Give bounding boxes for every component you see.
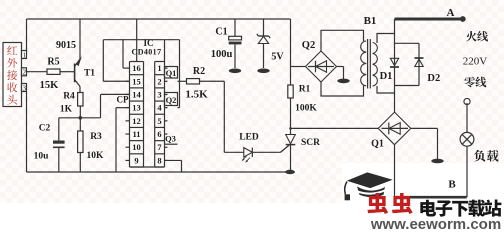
- wire pin2 to R5: [27, 71, 48, 73]
- svg-text:R3: R3: [90, 132, 102, 142]
- ground at Q2 right vertex: [337, 67, 350, 84]
- svg-text:CP: CP: [117, 95, 129, 105]
- ground blob right end of bottom rail: [285, 170, 295, 174]
- transformer B1: [361, 15, 378, 89]
- svg-text:6: 6: [157, 129, 161, 139]
- svg-text:2: 2: [157, 76, 161, 86]
- logo graduation cap: [345, 172, 393, 200]
- svg-text:3: 3: [157, 89, 161, 99]
- wire Q1 bottom to B line: [394, 145, 396, 198]
- pin 2 of IR receiver: [22, 68, 27, 77]
- svg-text:SCR: SCR: [301, 138, 320, 148]
- wire IC pin4 Q2 to pin15 reset over top: [103, 40, 179, 108]
- svg-text:11: 11: [132, 129, 140, 139]
- transistor T1 9015 PNP: [56, 19, 95, 93]
- svg-text:B: B: [448, 179, 456, 191]
- svg-text:9: 9: [134, 155, 138, 165]
- wire pin3 to ground rail: [26, 92, 28, 173]
- wire Q2 bottom to transformer primary bottom: [321, 82, 364, 96]
- svg-text:16: 16: [132, 63, 141, 73]
- svg-text:1K: 1K: [60, 105, 73, 115]
- diode D2 antiparallel: [395, 43, 441, 85]
- IC left pin numbers 16-9: [126, 63, 142, 165]
- label 220V: [463, 55, 488, 67]
- logo url www.eeworm.com: [370, 216, 501, 233]
- IC output Q3 label: [165, 134, 178, 145]
- svg-text:13: 13: [132, 103, 141, 113]
- logo 虫虫 red: [368, 193, 413, 214]
- resistor R2 1.5K: [185, 66, 208, 101]
- capacitor C2 10u: [34, 118, 65, 172]
- svg-text:10K: 10K: [87, 151, 105, 161]
- label 零线 neutral: [464, 77, 486, 88]
- wire top +V rail: [27, 18, 291, 20]
- diode D1: [380, 58, 399, 82]
- wire Q1 right vertex to ground: [411, 128, 444, 163]
- svg-text:R4: R4: [63, 92, 75, 102]
- wire lamp down to B line: [466, 147, 468, 198]
- svg-text:R5: R5: [47, 57, 59, 68]
- svg-text:Q1: Q1: [166, 68, 177, 78]
- svg-text:9015: 9015: [56, 40, 76, 51]
- wire IC pin8 VSS to ground rail: [165, 160, 182, 172]
- wire SCR node to Q1 left vertex: [291, 127, 379, 129]
- label 负载 load: [474, 150, 498, 162]
- IR receiver module 红外接收头: [3, 43, 22, 107]
- wire IC pin2 Q1 output to R2: [178, 80, 187, 82]
- wire IC pin13 to ground rail: [116, 108, 130, 172]
- thick line B: [394, 196, 466, 199]
- svg-text:D1: D1: [380, 71, 393, 82]
- svg-text:R1: R1: [299, 85, 311, 95]
- label 火线 live: [466, 31, 488, 42]
- ground below zener: [257, 69, 269, 74]
- wire secondary bottom to D1 bottom node: [377, 86, 395, 93]
- wire A line down through D1 to Q1 bridge: [394, 19, 396, 112]
- ground below C1: [229, 69, 241, 74]
- LED indicator diode: [239, 133, 259, 163]
- svg-text:220V: 220V: [463, 55, 488, 67]
- wire R2 down to LED: [200, 81, 244, 152]
- resistor R3 10K: [78, 118, 104, 172]
- svg-text:10: 10: [132, 142, 141, 152]
- bridge rectifier Q2: [302, 40, 337, 82]
- wire R4 bottom to junction: [79, 106, 81, 118]
- capacitor C1 100u: [211, 19, 242, 68]
- wire CP clock node to IC pin 14: [101, 94, 130, 117]
- svg-text:IC: IC: [143, 38, 153, 48]
- wire IC pin16 VDD to +V rail: [136, 19, 138, 62]
- svg-text:A: A: [447, 7, 455, 19]
- pin 1 of IR receiver: [22, 51, 27, 60]
- svg-text:CD4017: CD4017: [132, 48, 162, 57]
- svg-text:Q2: Q2: [166, 95, 177, 105]
- node junction R4/R3/C2/CP: [59, 116, 101, 120]
- wire rail node to Q2 left vertex: [291, 66, 306, 68]
- svg-text:C2: C2: [39, 124, 51, 134]
- label A: [447, 7, 455, 19]
- svg-text:2: 2: [22, 69, 26, 77]
- resistor R5 15K: [40, 57, 60, 92]
- svg-text:Q2: Q2: [302, 40, 315, 51]
- wire neutral terminal down to lamp: [466, 103, 468, 132]
- svg-text:14: 14: [132, 89, 141, 99]
- resistor R1 100K: [288, 85, 318, 114]
- svg-text:5: 5: [157, 116, 161, 126]
- wire R1 to SCR anode: [289, 98, 292, 135]
- svg-text:1: 1: [22, 51, 26, 59]
- IC output Q1 label box: [165, 67, 178, 79]
- svg-text:1: 1: [157, 63, 161, 73]
- svg-text:Q3: Q3: [165, 134, 176, 144]
- svg-text:www.eeworm.com: www.eeworm.com: [370, 216, 501, 230]
- wire pin1 to +V rail: [26, 19, 28, 51]
- pin 3 of IR receiver: [22, 84, 27, 93]
- svg-text:15K: 15K: [40, 80, 60, 91]
- svg-text:R2: R2: [193, 66, 205, 77]
- svg-text:B1: B1: [364, 15, 377, 27]
- svg-text:Q1: Q1: [371, 138, 384, 149]
- SCR thyristor: [281, 135, 321, 173]
- svg-text:8: 8: [157, 155, 161, 165]
- neutral terminal circle: [464, 98, 470, 104]
- wire +V rail down to Q2 bridge and R1: [290, 19, 292, 85]
- zener diode 5V: [257, 19, 285, 68]
- svg-text:1.5K: 1.5K: [185, 89, 208, 101]
- svg-text:10u: 10u: [34, 152, 50, 162]
- wire Q2 top to transformer primary top: [321, 30, 364, 51]
- svg-text:LED: LED: [239, 133, 259, 143]
- svg-text:15: 15: [132, 76, 141, 86]
- IC output Q2 label box: [165, 93, 178, 106]
- resistor R4 1K: [60, 92, 83, 115]
- wire secondary top to A line node: [377, 34, 395, 44]
- svg-text:3: 3: [22, 84, 26, 92]
- wire R5 to T1 base: [60, 71, 74, 73]
- wire LED to SCR gate: [252, 145, 289, 152]
- lamp load symbol: [460, 132, 474, 146]
- label CP: [116, 95, 130, 105]
- logo 电子下载站: [420, 200, 501, 217]
- IC right pin numbers 1-8: [157, 63, 167, 165]
- svg-text:T1: T1: [84, 69, 95, 79]
- svg-text:D2: D2: [427, 73, 440, 84]
- IC U1 CD4017 decade counter body: [103, 38, 179, 167]
- svg-text:C1: C1: [215, 27, 227, 38]
- svg-text:12: 12: [132, 116, 141, 126]
- wire bottom ground rail: [27, 171, 291, 173]
- thick line A live wire: [395, 16, 466, 22]
- label B: [448, 179, 456, 191]
- svg-text:100u: 100u: [211, 49, 233, 60]
- svg-text:100K: 100K: [295, 104, 317, 114]
- bridge rectifier Q1: [371, 112, 411, 149]
- svg-text:5V: 5V: [271, 52, 284, 63]
